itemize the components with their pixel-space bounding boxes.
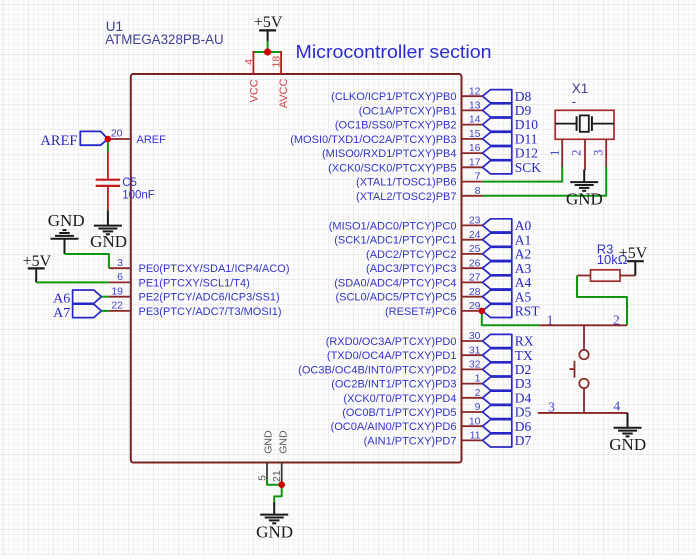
svg-text:VCC: VCC <box>249 79 261 102</box>
net flag A3 <box>483 262 512 275</box>
svg-text:1: 1 <box>475 373 481 385</box>
net flag AREF <box>80 131 108 145</box>
svg-text:(SCL0/ADC5/PTCY)PC5: (SCL0/ADC5/PTCY)PC5 <box>335 292 456 304</box>
svg-text:A1: A1 <box>515 232 532 247</box>
net flag D7 <box>483 434 512 447</box>
pin 1 (OC2B/INT1/PTCXY)PD3 <box>462 383 483 385</box>
svg-text:(OC2B/INT1/PTCXY)PD3: (OC2B/INT1/PTCXY)PD3 <box>331 379 456 391</box>
wire RST to SW pin1 <box>482 311 539 325</box>
svg-text:(OC0B/T1/PTCXY)PD5: (OC0B/T1/PTCXY)PD5 <box>342 407 456 419</box>
svg-text:RX: RX <box>515 334 534 349</box>
net flag A0 <box>483 219 512 232</box>
pin 24 (SCK1/ADC1/PTCY)PC1 <box>462 239 483 241</box>
svg-text:11: 11 <box>470 430 481 442</box>
svg-text:(AIN1/PTCXY)PD7: (AIN1/PTCXY)PD7 <box>364 435 457 447</box>
svg-text:GND: GND <box>263 430 275 454</box>
wire +5V to pin 6 <box>36 281 109 283</box>
svg-text:(RESET#)PC6: (RESET#)PC6 <box>385 306 457 318</box>
pin 31 (TXD0/OC4A/PTCXY)PD1 <box>462 354 483 356</box>
net flag A4 <box>483 276 512 289</box>
svg-text:GND: GND <box>256 522 293 541</box>
svg-text:-: - <box>572 94 577 109</box>
push button actuator <box>574 361 576 378</box>
net flag A5 <box>483 290 512 303</box>
pin 12 (CLKO/ICP1/PTCXY)PB0 <box>462 95 483 97</box>
svg-text:(SDA0/ADC4/PTCY)PC4: (SDA0/ADC4/PTCY)PC4 <box>334 277 456 289</box>
pin 29 (RESET#)PC6 <box>462 310 483 312</box>
junction dot below pin 21 <box>278 481 285 488</box>
svg-text:30: 30 <box>469 330 481 342</box>
wire XTAL2 pin8 to X1 pin3 <box>483 167 607 196</box>
svg-text:4: 4 <box>613 399 620 414</box>
svg-text:A7: A7 <box>53 306 70 321</box>
pin 7 (XTAL1/TOSC1)PB6 <box>462 181 483 183</box>
svg-text:AREF: AREF <box>40 133 77 149</box>
push button contacts <box>579 350 588 359</box>
svg-text:2: 2 <box>569 150 583 156</box>
net flag D3 <box>483 377 512 390</box>
pin 8 (XTAL2/TOSC2)PB7 <box>462 195 483 197</box>
svg-text:AVCC: AVCC <box>278 78 290 108</box>
svg-text:D8: D8 <box>515 89 532 104</box>
svg-text:17: 17 <box>469 156 481 168</box>
svg-text:28: 28 <box>469 286 481 298</box>
net flag D4 <box>483 391 512 404</box>
capacitor C5 100nF <box>107 152 109 179</box>
svg-text:27: 27 <box>469 272 481 284</box>
svg-text:PE2(PTCY/ADC6/ICP3/SS1): PE2(PTCY/ADC6/ICP3/SS1) <box>139 292 280 304</box>
pin 5 GND <box>266 463 268 480</box>
net flag D6 <box>483 420 512 433</box>
net flag SCK <box>483 161 512 174</box>
svg-text:(XTAL1/TOSC1)PB6: (XTAL1/TOSC1)PB6 <box>356 177 456 189</box>
pin 27 (SDA0/ADC4/PTCY)PC4 <box>462 281 483 283</box>
svg-text:D4: D4 <box>515 390 532 405</box>
svg-text:(ADC2/PTCY)PC2: (ADC2/PTCY)PC2 <box>366 249 456 261</box>
wire R3 to SW pin2 <box>577 276 627 326</box>
svg-text:1: 1 <box>547 313 554 328</box>
net flag D9 <box>483 104 512 117</box>
net flag RX <box>483 334 512 347</box>
pin 22 PE3 <box>109 310 131 312</box>
svg-text:13: 13 <box>469 100 481 112</box>
pin 28 (SCL0/ADC5/PTCY)PC5 <box>462 296 483 298</box>
svg-text:Microcontroller section: Microcontroller section <box>296 42 492 62</box>
X1 pin 2 <box>584 139 586 170</box>
svg-text:(XCK0/T0/PTCXY)PD4: (XCK0/T0/PTCXY)PD4 <box>343 393 456 405</box>
pin 26 (ADC3/PTCY)PC3 <box>462 267 483 269</box>
svg-text:8: 8 <box>475 185 481 197</box>
svg-text:A0: A0 <box>515 218 532 233</box>
svg-text:9: 9 <box>475 401 481 413</box>
pin 13 (OC1A/PTCXY)PB1 <box>462 109 483 111</box>
push button bottom lead pins 3-4 <box>583 388 585 413</box>
wire A6 to pin 19 <box>101 296 109 298</box>
svg-text:(OC1B/SS0/PTCXY)PB2: (OC1B/SS0/PTCXY)PB2 <box>335 120 457 132</box>
svg-text:D11: D11 <box>515 132 538 147</box>
svg-text:GND: GND <box>566 190 603 209</box>
pin 10 (OC0A/AIN0/PTCXY)PD6 <box>462 425 483 427</box>
svg-text:10: 10 <box>469 415 481 427</box>
svg-text:26: 26 <box>469 257 481 269</box>
svg-text:D12: D12 <box>515 146 538 161</box>
net flag D10 <box>483 118 512 131</box>
ground below push button <box>627 413 629 428</box>
ground below X1 <box>583 170 585 183</box>
svg-text:(OC1A/PTCXY)PB1: (OC1A/PTCXY)PB1 <box>359 105 457 117</box>
net flag TX <box>483 349 512 362</box>
net flag A7 <box>73 304 102 317</box>
net flag D8 <box>483 90 512 103</box>
wire A7 to pin 22 <box>101 310 109 312</box>
wire junction to GND symbol <box>274 485 282 503</box>
svg-text:12: 12 <box>469 85 481 97</box>
net flag D2 <box>483 363 512 376</box>
svg-text:(MOSI0/TXD1/OC2A/PTCXY)PB3: (MOSI0/TXD1/OC2A/PTCXY)PB3 <box>290 134 456 146</box>
svg-text:24: 24 <box>469 229 481 241</box>
svg-text:1: 1 <box>548 150 562 156</box>
svg-text:D3: D3 <box>515 376 532 391</box>
svg-text:21: 21 <box>271 470 283 482</box>
pin 11 (AIN1/PTCXY)PD7 <box>462 439 483 441</box>
svg-text:7: 7 <box>475 171 481 183</box>
svg-text:ATMEGA328PB-AU: ATMEGA328PB-AU <box>105 32 224 47</box>
svg-text:D7: D7 <box>515 433 532 448</box>
svg-text:23: 23 <box>469 215 481 227</box>
svg-text:GND: GND <box>48 211 85 230</box>
svg-text:+5V: +5V <box>254 14 283 31</box>
pin 30 (RXD0/OC3A/PTCXY)PD0 <box>462 340 483 342</box>
svg-text:31: 31 <box>469 344 481 356</box>
svg-text:A5: A5 <box>515 289 532 304</box>
svg-text:19: 19 <box>111 286 123 298</box>
wire pin5 to junction <box>267 479 282 485</box>
wire left GND to pin 3 <box>65 254 109 268</box>
svg-text:A6: A6 <box>53 292 70 307</box>
svg-text:D5: D5 <box>515 405 532 420</box>
svg-text:(OC3B/OC4B/INT0/PTCXY)PD2: (OC3B/OC4B/INT0/PTCXY)PD2 <box>298 364 456 376</box>
svg-text:D10: D10 <box>515 117 538 132</box>
wire XTAL1 pin7 to X1 pin1 <box>483 167 563 182</box>
pin 17 (XCK0/SCK0/PTCXY)PB5 <box>462 166 483 168</box>
svg-text:4: 4 <box>243 59 255 65</box>
svg-text:(ADC3/PTCY)PC3: (ADC3/PTCY)PC3 <box>366 263 456 275</box>
junction dot at RST pin 29 <box>479 308 486 315</box>
svg-text:GND: GND <box>609 435 646 454</box>
wire +5V to VCC/AVCC <box>253 51 281 53</box>
svg-text:PE3(PTCY/ADC7/T3/MOSI1): PE3(PTCY/ADC7/T3/MOSI1) <box>139 306 282 318</box>
svg-text:(MISO0/RXD1/PTCXY)PB4: (MISO0/RXD1/PTCXY)PB4 <box>322 148 456 160</box>
pin 16 (MISO0/RXD1/PTCXY)PB4 <box>462 152 483 154</box>
svg-text:32: 32 <box>469 359 481 371</box>
pin 9 (OC0B/T1/PTCXY)PD5 <box>462 411 483 413</box>
svg-text:PE0(PTCXY/SDA1/ICP4/ACO): PE0(PTCXY/SDA1/ICP4/ACO) <box>139 263 290 275</box>
svg-text:+5V: +5V <box>619 245 648 262</box>
pin 20 AREF <box>108 138 131 140</box>
svg-text:3: 3 <box>548 400 555 415</box>
pin 18 AVCC <box>280 51 282 74</box>
svg-text:3: 3 <box>592 150 606 156</box>
svg-text:18: 18 <box>271 56 283 68</box>
junction dot at VCC/AVCC <box>264 48 271 55</box>
svg-text:(OC0A/AIN0/PTCXY)PD6: (OC0A/AIN0/PTCXY)PD6 <box>331 421 457 433</box>
pin 4 VCC <box>252 51 254 74</box>
pin 2 (XCK0/T0/PTCXY)PD4 <box>462 397 483 399</box>
svg-text:25: 25 <box>469 243 481 255</box>
pin 25 (ADC2/PTCY)PC2 <box>462 253 483 255</box>
svg-text:C5: C5 <box>122 177 137 189</box>
net flag D5 <box>483 405 512 418</box>
svg-text:(MISO1/ADC0/PTCY)PC0: (MISO1/ADC0/PTCY)PC0 <box>329 220 457 232</box>
IC U1 ATMEGA328PB-AU body <box>131 74 462 463</box>
svg-text:TX: TX <box>515 348 533 363</box>
net flag RST <box>483 304 512 317</box>
svg-text:A2: A2 <box>515 247 532 262</box>
svg-text:(CLKO/ICP1/PTCXY)PB0: (CLKO/ICP1/PTCXY)PB0 <box>331 91 456 103</box>
svg-text:22: 22 <box>111 300 123 312</box>
net flag A2 <box>483 247 512 260</box>
svg-text:100nF: 100nF <box>122 190 155 202</box>
svg-text:2: 2 <box>613 313 620 328</box>
X1 pin 3 <box>605 139 607 167</box>
pin 14 (OC1B/SS0/PTCXY)PB2 <box>462 124 483 126</box>
svg-text:D9: D9 <box>515 103 532 118</box>
pin 32 (OC3B/OC4B/INT0/PTCXY)PD2 <box>462 368 483 370</box>
X1 pin 1 <box>561 139 563 167</box>
net flag A6 <box>73 290 102 303</box>
pin 6 PE1 <box>109 281 131 283</box>
svg-text:D6: D6 <box>515 419 532 434</box>
net flag A1 <box>483 233 512 246</box>
svg-text:(TXD0/OC4A/PTCXY)PD1: (TXD0/OC4A/PTCXY)PD1 <box>327 350 457 362</box>
pin 3 PE0 <box>109 267 131 269</box>
svg-text:(XTAL2/TOSC2)PB7: (XTAL2/TOSC2)PB7 <box>356 191 456 203</box>
svg-text:GND: GND <box>277 430 289 454</box>
svg-text:6: 6 <box>117 271 123 283</box>
svg-text:15: 15 <box>469 128 481 140</box>
net flag D11 <box>483 132 512 145</box>
svg-text:RST: RST <box>515 304 541 319</box>
svg-text:2: 2 <box>475 387 481 399</box>
pin 23 (MISO1/ADC0/PTCY)PC0 <box>462 224 483 226</box>
svg-text:A4: A4 <box>515 275 532 290</box>
svg-text:PE1(PTCXY/SCL1/T4): PE1(PTCXY/SCL1/T4) <box>139 277 250 289</box>
pin 21 GND <box>281 463 283 482</box>
ground (bottom of U1) <box>273 502 275 514</box>
net flag D12 <box>483 147 512 160</box>
svg-text:D2: D2 <box>515 362 532 377</box>
pin 15 (MOSI0/TXD1/OC2A/PTCXY)PB3 <box>462 138 483 140</box>
svg-text:3: 3 <box>117 257 123 269</box>
wire AREF to C5 <box>107 139 109 153</box>
svg-text:(RXD0/OC3A/PTCXY)PD0: (RXD0/OC3A/PTCXY)PD0 <box>326 336 457 348</box>
push button top lead pins 1-2 <box>539 324 627 326</box>
pin 19 PE2 <box>109 296 131 298</box>
svg-text:(XCK0/SCK0/PTCXY)PB5: (XCK0/SCK0/PTCXY)PB5 <box>328 162 456 174</box>
svg-text:16: 16 <box>469 142 481 154</box>
svg-text:SCK: SCK <box>515 160 542 175</box>
svg-text:14: 14 <box>469 114 481 126</box>
svg-text:AREF: AREF <box>137 134 167 146</box>
junction dot at AREF <box>105 136 112 143</box>
svg-text:20: 20 <box>111 128 123 140</box>
svg-text:GND: GND <box>90 232 127 251</box>
ground below C5 <box>107 210 109 225</box>
svg-text:A3: A3 <box>515 261 532 276</box>
svg-text:(SCK1/ADC1/PTCY)PC1: (SCK1/ADC1/PTCY)PC1 <box>334 235 456 247</box>
